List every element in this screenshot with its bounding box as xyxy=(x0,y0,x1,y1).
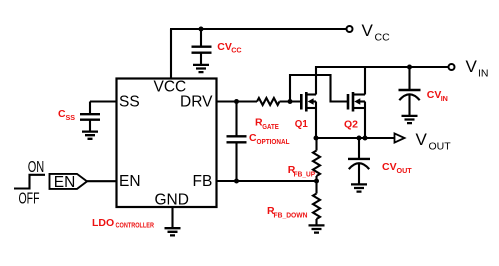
svg-text:LDO: LDO xyxy=(92,217,114,229)
terminal VCC circle xyxy=(347,26,353,32)
svg-text:GND: GND xyxy=(155,192,189,209)
node junction Q1 source xyxy=(314,136,319,141)
node junction CVIN xyxy=(407,65,412,70)
svg-text:FB_DOWN: FB_DOWN xyxy=(274,210,308,219)
svg-text:FB: FB xyxy=(193,173,213,190)
ground GND pin xyxy=(165,228,181,235)
node junction COPTIONAL top xyxy=(234,99,239,104)
transistor Q1 xyxy=(301,66,316,139)
svg-text:CC: CC xyxy=(231,46,241,55)
svg-text:V: V xyxy=(416,130,428,149)
wire VCC top rail xyxy=(170,28,346,30)
node junction CVOUT xyxy=(357,136,362,141)
node junction Q2 source xyxy=(363,136,368,141)
ground CVOUT xyxy=(351,184,367,191)
resistor RGATE xyxy=(257,98,280,105)
svg-text:EN: EN xyxy=(119,173,141,190)
svg-text:OPTIONAL: OPTIONAL xyxy=(257,137,291,146)
wire gate detour to Q2 xyxy=(290,75,347,102)
wire VIN rail xyxy=(316,66,448,68)
terminal VIN circle xyxy=(449,64,455,70)
svg-text:SS: SS xyxy=(66,113,76,122)
svg-text:IN: IN xyxy=(441,94,448,103)
node junction gate tee xyxy=(288,99,293,104)
wire SS pin xyxy=(90,100,117,102)
wire VOUT line xyxy=(316,137,394,139)
svg-text:IN: IN xyxy=(478,68,489,80)
svg-text:V: V xyxy=(362,21,374,40)
wire GND pin xyxy=(171,207,173,228)
svg-text:Q2: Q2 xyxy=(344,119,358,131)
IC U1 LDO controller box xyxy=(117,79,217,208)
svg-text:OFF: OFF xyxy=(19,190,40,207)
capacitor CSS xyxy=(80,102,100,132)
transistor Q2 xyxy=(348,66,365,139)
svg-text:Q1: Q1 xyxy=(295,118,308,130)
svg-text:OUT: OUT xyxy=(397,166,413,175)
svg-text:CV: CV xyxy=(382,161,397,173)
svg-text:GATE: GATE xyxy=(262,122,279,131)
capacitor CVOUT polarized xyxy=(348,138,370,184)
svg-text:DRV: DRV xyxy=(180,94,213,111)
wire FB pin xyxy=(217,180,317,182)
ground CVIN xyxy=(402,116,418,123)
capacitor COPTIONAL xyxy=(227,102,247,182)
node junction FB divider xyxy=(314,179,319,184)
ground CSS xyxy=(82,132,98,139)
wire EN pin xyxy=(87,180,117,182)
svg-text:OUT: OUT xyxy=(429,141,452,153)
svg-text:EN: EN xyxy=(54,174,76,191)
svg-text:CC: CC xyxy=(375,32,391,44)
node junction CVCC xyxy=(199,27,204,32)
capacitor CVCC xyxy=(192,29,212,64)
capacitor CVIN polarized xyxy=(399,67,421,116)
resistor RFB_UP xyxy=(313,139,320,181)
svg-text:ON: ON xyxy=(28,159,45,176)
resistor RFB_DOWN xyxy=(313,181,320,225)
svg-text:V: V xyxy=(466,57,478,76)
svg-text:CV: CV xyxy=(217,41,232,53)
svg-text:CV: CV xyxy=(427,89,442,101)
svg-text:SS: SS xyxy=(119,94,140,111)
svg-text:FB_UP: FB_UP xyxy=(294,169,316,178)
ground RFB_DOWN xyxy=(309,225,325,232)
terminal VOUT arrow xyxy=(395,133,405,142)
wire DRV pin xyxy=(217,100,258,102)
wire RGATE to Q1 gate xyxy=(280,100,301,102)
svg-text:CONTROLLER: CONTROLLER xyxy=(116,220,155,229)
ground CVCC xyxy=(193,65,209,72)
wire VCC pin vertical xyxy=(170,29,172,79)
node EN tag xyxy=(50,174,88,191)
node junction COPTIONAL bottom xyxy=(234,179,239,184)
wire EN step waveform xyxy=(14,175,45,189)
